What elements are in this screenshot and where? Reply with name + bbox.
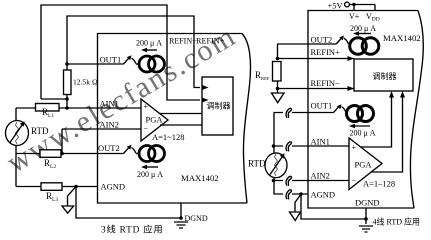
svg-text:12.5k Ω: 12.5k Ω: [73, 78, 98, 87]
svg-text:V+: V+: [349, 12, 360, 21]
svg-text:REFIN+: REFIN+: [311, 47, 341, 57]
svg-text:+: +: [144, 102, 149, 111]
svg-text:3线 RTD 应用: 3线 RTD 应用: [101, 224, 163, 236]
svg-text:REFIN−: REFIN−: [169, 37, 197, 46]
svg-text:MAX1402: MAX1402: [181, 173, 219, 183]
svg-text:A=1~128: A=1~128: [152, 132, 185, 142]
svg-text:AIN2: AIN2: [311, 171, 330, 181]
svg-text:OUT2: OUT2: [311, 35, 333, 45]
svg-text:−: −: [144, 125, 149, 134]
svg-text:RTD: RTD: [31, 126, 49, 136]
svg-text:AGND: AGND: [311, 190, 336, 200]
svg-text:−: −: [352, 176, 357, 185]
svg-text:4线 RTD 应用: 4线 RTD 应用: [373, 217, 421, 227]
svg-text:+: +: [352, 143, 357, 152]
svg-text:MAX1402: MAX1402: [383, 33, 421, 43]
svg-text:PGA: PGA: [355, 160, 373, 170]
svg-text:DGND: DGND: [355, 198, 380, 208]
svg-text:REFIN−: REFIN−: [311, 78, 341, 88]
svg-text:DGND: DGND: [185, 214, 208, 223]
svg-text:200 μ A: 200 μ A: [136, 39, 162, 48]
svg-text:RTD: RTD: [248, 159, 266, 169]
svg-text:OUT1: OUT1: [100, 55, 122, 65]
svg-text:调制器: 调制器: [373, 71, 397, 81]
svg-text:PGA: PGA: [146, 115, 164, 125]
svg-text:调制器: 调制器: [207, 101, 231, 111]
svg-text:REFIN+: REFIN+: [196, 37, 225, 46]
svg-text:OUT1: OUT1: [311, 101, 333, 111]
svg-text:OUT2: OUT2: [98, 143, 120, 153]
svg-text:AIN1: AIN1: [100, 99, 119, 109]
svg-text:200 μ A: 200 μ A: [350, 129, 376, 138]
svg-text:AIN2: AIN2: [100, 120, 119, 130]
svg-text:AIN1: AIN1: [311, 137, 330, 147]
svg-text:200 μ A: 200 μ A: [137, 170, 163, 179]
svg-text:A=1–128: A=1–128: [363, 179, 395, 189]
svg-text:+5V: +5V: [328, 1, 344, 11]
svg-text:AGND: AGND: [101, 182, 126, 192]
svg-text:200 μ A: 200 μ A: [350, 24, 376, 33]
